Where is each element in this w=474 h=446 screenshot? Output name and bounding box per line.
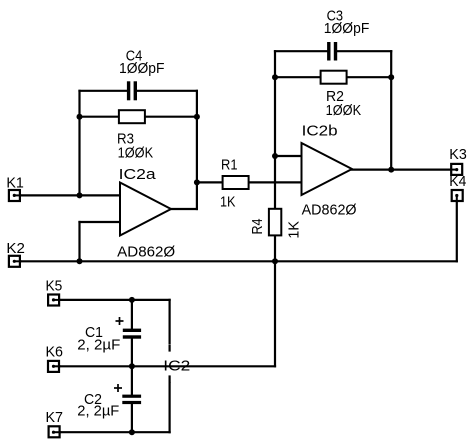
wire IC2b output to K3 [352, 169, 457, 171]
wire R1 line [197, 181, 302, 183]
svg-text:1ØØpF: 1ØØpF [324, 21, 370, 37]
svg-text:K7: K7 [46, 410, 64, 426]
connector K7 [49, 426, 60, 437]
C2 polarity plus sign [114, 384, 122, 392]
svg-text:K6: K6 [46, 345, 64, 361]
wire IC2a -input vertical to K2 line [78, 222, 80, 261]
svg-text:K4: K4 [449, 174, 466, 190]
pin dot K5 inner [52, 298, 55, 301]
capacitor C4 plate right [134, 81, 137, 100]
capacitor C3 plate left [327, 42, 330, 61]
wire C4 top line left segment [80, 90, 128, 92]
svg-text:IC2: IC2 [163, 359, 190, 375]
node junction R3 right [194, 114, 200, 120]
svg-text:K2: K2 [6, 241, 25, 257]
capacitor C2 plate top [122, 395, 141, 398]
wire K1 pin to IC2a +input [14, 194, 120, 196]
svg-text:2, 2µF: 2, 2µF [77, 337, 120, 353]
wire K4 vertical [456, 196, 458, 262]
svg-text:K5: K5 [46, 278, 63, 294]
wire feedback left vertical IC2a [78, 91, 80, 196]
node junction R4 bottom [272, 258, 278, 264]
op-amp IC2a [120, 183, 171, 236]
wire K6 pin inside box [54, 365, 61, 367]
capacitor C2 plate bottom [122, 401, 141, 404]
wire C1 top [131, 300, 133, 329]
node junction IC2b +input [272, 153, 278, 159]
node junction C2 bottom [129, 429, 135, 435]
svg-text:1K: 1K [287, 221, 303, 239]
wire feedback right vertical IC2a [196, 91, 198, 209]
wire K3 pin stub [450, 169, 456, 171]
node junction C1 C2 K6 [129, 363, 135, 369]
svg-text:K3: K3 [449, 147, 467, 163]
wire K5 pin [54, 299, 170, 301]
C1 polarity plus sign [116, 317, 124, 325]
pin dot K1 inner [13, 194, 16, 197]
connector K5 [48, 295, 59, 306]
svg-text:R4: R4 [250, 219, 266, 235]
pin dot K6 inner [52, 365, 55, 368]
wire IC2a output [171, 208, 197, 210]
svg-text:IC2b: IC2b [302, 124, 338, 140]
capacitor C3 plate right [334, 42, 337, 61]
wire IC2 vertical to K2 line [274, 261, 276, 366]
wire K5 pin inside box [54, 299, 61, 301]
wire C2 bottom [131, 404, 133, 432]
svg-text:2, 2µF: 2, 2µF [77, 404, 119, 420]
wire K1 pin inside box [14, 194, 21, 196]
svg-text:1ØØK: 1ØØK [118, 145, 154, 161]
node junction R1 left [194, 179, 200, 185]
svg-text:AD862Ø: AD862Ø [117, 245, 175, 261]
svg-text:IC2a: IC2a [119, 167, 157, 183]
wire feedback right vertical IC2b [390, 51, 392, 169]
wire K7 pin [54, 431, 170, 433]
node junction R2 right [388, 74, 394, 80]
wire C1 bottom to K6 line [131, 339, 133, 367]
node junction C1 top [129, 297, 135, 303]
connector K6 [48, 361, 59, 372]
capacitor C1 plate top [123, 329, 141, 332]
wire IC2b +input [275, 155, 302, 157]
svg-text:AD862Ø: AD862Ø [302, 203, 357, 219]
capacitor C1 plate bottom [123, 335, 141, 338]
node junction R2 left [272, 74, 278, 80]
pin dot K6 [52, 365, 55, 368]
pin dot K5 [52, 298, 55, 301]
wire K6 IC2 line [54, 365, 276, 367]
wire C4 top line right segment [137, 90, 197, 92]
connector K2 [9, 256, 20, 267]
resistor R4 body [269, 209, 281, 236]
pin dot K1 [13, 194, 16, 197]
node junction K2 left [77, 258, 83, 264]
pin dot K4 inner [455, 194, 458, 197]
wire K7 pin inside box [54, 431, 61, 433]
wire R4 bottom [274, 235, 276, 261]
wire IC2 V+ stub [169, 300, 171, 343]
wire C3 top line right segment [337, 50, 391, 52]
svg-text:R1: R1 [221, 157, 238, 173]
wire R3 line [80, 116, 197, 118]
wire K2 pin inside box [14, 260, 21, 262]
pin mark IC2 V- [169, 377, 171, 382]
wire K2 line [14, 260, 457, 262]
svg-text:1ØØK: 1ØØK [326, 103, 362, 119]
pin dot K4 [455, 194, 458, 197]
connector K4 [452, 190, 463, 201]
wire IC2 V- stub [169, 383, 171, 432]
wire IC2a -input horizontal [80, 221, 121, 223]
node junction K1 feedback [77, 192, 83, 198]
capacitor C4 plate left [127, 81, 130, 100]
pin dot K2 [13, 260, 16, 263]
connector K3 [451, 164, 462, 175]
resistor R2 body [321, 71, 347, 84]
wire C2 top [131, 366, 133, 394]
wire feedback left vertical IC2b [274, 51, 276, 209]
node junction IC2b output [388, 167, 394, 173]
pin dot K3 inner [455, 168, 458, 171]
wire R2 line [275, 76, 391, 78]
wire C3 top line left segment [275, 50, 327, 52]
resistor R3 body [119, 110, 145, 123]
pin mark IC2 V+ [169, 346, 171, 351]
connector K1 [9, 190, 20, 201]
pin dot K7 [52, 431, 55, 434]
resistor R1 body [223, 176, 249, 189]
svg-text:K1: K1 [6, 175, 24, 191]
pin dot K3 [455, 168, 458, 171]
pin dot K7 inner [52, 431, 55, 434]
svg-text:1K: 1K [220, 194, 236, 210]
svg-text:1ØØpF: 1ØØpF [119, 61, 165, 77]
pin dot K2 inner [13, 260, 16, 263]
op-amp IC2b [302, 143, 353, 195]
wire K4 pin stub [456, 196, 458, 202]
node junction R3 left [77, 114, 83, 120]
